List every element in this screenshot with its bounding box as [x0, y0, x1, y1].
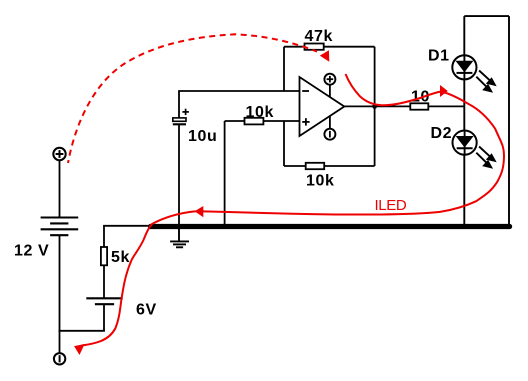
red arrowhead at negative terminal: [74, 344, 85, 355]
red current path ILED: [82, 74, 504, 346]
wire capacitor top to op-amp inverting input: [179, 91, 300, 118]
red arrowhead on bus (leftward): [195, 206, 204, 217]
terminal minus (bottom left supply -): [54, 353, 65, 364]
junction output node: [372, 104, 377, 109]
wire LED rail top: [464, 15, 509, 17]
LED D1: [452, 55, 476, 79]
wire op-amp output to LED rail: [344, 105, 464, 107]
wire divider to bus: [224, 121, 226, 225]
wire bottom horizontal to 6V branch: [59, 330, 105, 332]
op-amp V+ pin: [324, 74, 335, 98]
LED D1 emission arrows: [476, 71, 495, 92]
svg-text:6V: 6V: [136, 302, 157, 319]
svg-text:ILED: ILED: [375, 197, 407, 214]
wire LED rail right vertical: [508, 16, 510, 225]
resistor 5k: [101, 247, 107, 265]
capacitor C1 10u (polarized): [173, 109, 189, 125]
LED D2: [453, 131, 477, 155]
wire feedback bottom: [284, 165, 375, 167]
wire feedback left lower: [283, 121, 285, 166]
resistor 10k (positive feedback): [306, 163, 325, 169]
terminal plus (top left supply +): [53, 148, 65, 160]
battery B2 6V: [86, 298, 122, 304]
wire capacitor bottom lead to bus: [178, 124, 180, 229]
red dashed arrowhead: [320, 50, 330, 62]
resistor 10: [410, 103, 428, 109]
resistor 47k: [305, 44, 324, 50]
svg-text:5k: 5k: [111, 249, 130, 266]
wire 6V bottom lead: [103, 304, 105, 331]
svg-text:10u: 10u: [188, 128, 217, 145]
svg-text:D2: D2: [431, 125, 453, 142]
wire feedback left upper: [283, 47, 285, 91]
ground symbol: [170, 229, 189, 247]
svg-text:12 V: 12 V: [14, 243, 49, 260]
op-amp V- pin: [324, 116, 335, 140]
svg-text:10k: 10k: [306, 173, 335, 190]
svg-text:47k: 47k: [305, 28, 334, 45]
wire battery 12V down to bottom terminal: [59, 235, 61, 353]
op-amp U1: [300, 77, 345, 136]
svg-text:10k: 10k: [246, 104, 275, 121]
svg-text:D1: D1: [428, 47, 450, 64]
wire feedback top: [284, 46, 375, 48]
resistor 10k (divider): [245, 118, 264, 125]
wire 6V to 5k: [103, 265, 105, 298]
wire feedback right vertical: [374, 47, 376, 166]
red dashed feedback annotation: [68, 34, 317, 163]
red arrowhead toward D1: [440, 85, 448, 97]
wire terminal+ to battery 12V: [59, 160, 61, 217]
wire LED rail left vertical: [463, 16, 465, 225]
ground bus (thick net): [150, 224, 509, 229]
battery B1 12V: [41, 218, 79, 236]
wire divider to op-amp non-inverting input: [225, 120, 300, 122]
wire 5k to ground bus: [104, 226, 148, 247]
LED D2 emission arrows: [476, 147, 495, 168]
